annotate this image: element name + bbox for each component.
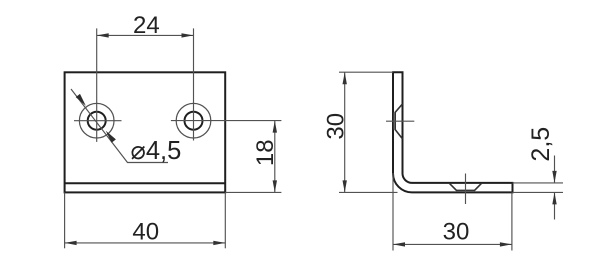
dimension 40 line xyxy=(65,242,226,244)
hole H1 horizontal centerline xyxy=(74,120,122,122)
leader arrow upper xyxy=(76,94,88,108)
dimension 2,5 lower line xyxy=(554,192,556,219)
hole H1 outer circle xyxy=(79,103,114,138)
plate outline (front view) xyxy=(65,72,226,192)
svg-text:40: 40 xyxy=(132,218,159,245)
dimension 24 arrow left xyxy=(97,33,109,37)
horizontal leg hole centerline xyxy=(465,174,467,205)
dimension 40 arrow right xyxy=(213,241,225,245)
dimension 24 arrow right xyxy=(182,33,194,37)
dimension 18 line xyxy=(274,121,276,193)
dimension 18 arrow down xyxy=(273,180,277,192)
vertical leg hole centerline xyxy=(386,120,414,122)
dimension 30 (left) arrow up xyxy=(343,72,347,84)
dimension 30 (bottom) arrow left xyxy=(393,242,405,246)
svg-text:2,5: 2,5 xyxy=(527,127,555,162)
dimension 30 (left) line xyxy=(344,72,346,192)
countersunk hole in vertical leg: gray band xyxy=(394,112,396,129)
bend line xyxy=(65,182,226,184)
leader line for hole diameter xyxy=(71,89,168,163)
svg-text:24: 24 xyxy=(133,12,160,39)
dimension 40 extension line right xyxy=(224,192,226,248)
dimension 40 extension line left xyxy=(64,192,66,248)
svg-text:30: 30 xyxy=(323,113,350,140)
dimension 30 (left) bottom extension line xyxy=(339,191,398,193)
hole H2 vertical centerline / extension line xyxy=(193,28,195,140)
dimension 2,5 arrow down xyxy=(552,171,556,183)
countersunk hole in horizontal leg xyxy=(449,183,482,191)
hole H2 horizontal centerline / extension line for dim 18 xyxy=(171,120,282,122)
dimension 40 arrow left xyxy=(65,241,77,245)
L-profile outline (side view) xyxy=(393,72,513,192)
svg-text:30: 30 xyxy=(443,219,470,246)
dimension 30 (left) top extension line xyxy=(339,71,393,73)
leader arrow lower xyxy=(104,129,116,143)
dimension 2,5 arrow up xyxy=(552,192,556,204)
dimension 2,5 bottom extension line xyxy=(513,191,564,193)
countersunk hole in vertical leg xyxy=(395,104,402,139)
dimension 30 (bottom) line xyxy=(393,243,512,245)
countersunk hole in horizontal leg: gray band xyxy=(457,190,475,192)
svg-text:⌀4,5: ⌀4,5 xyxy=(131,137,182,165)
dimension 2,5 top extension line xyxy=(513,182,564,184)
dimension 18 arrow up xyxy=(273,121,277,133)
hole H1 (left) inner circle xyxy=(88,112,106,130)
svg-text:18: 18 xyxy=(252,139,279,166)
hole H2 outer circle xyxy=(176,103,211,138)
dimension 24 line xyxy=(97,34,194,36)
dimension 2,5 upper line xyxy=(554,156,556,183)
dimension 30 (bottom) right extension line xyxy=(511,192,513,250)
hole H2 (right) inner circle xyxy=(185,112,203,130)
dimension 30 (bottom) arrow right xyxy=(500,242,512,246)
hole H1 vertical centerline / extension line xyxy=(96,28,98,141)
dimension 30 (left) arrow down xyxy=(343,180,347,192)
dimension 30 (bottom) left extension line xyxy=(392,173,394,251)
dimension 18 bottom extension line xyxy=(225,191,281,193)
